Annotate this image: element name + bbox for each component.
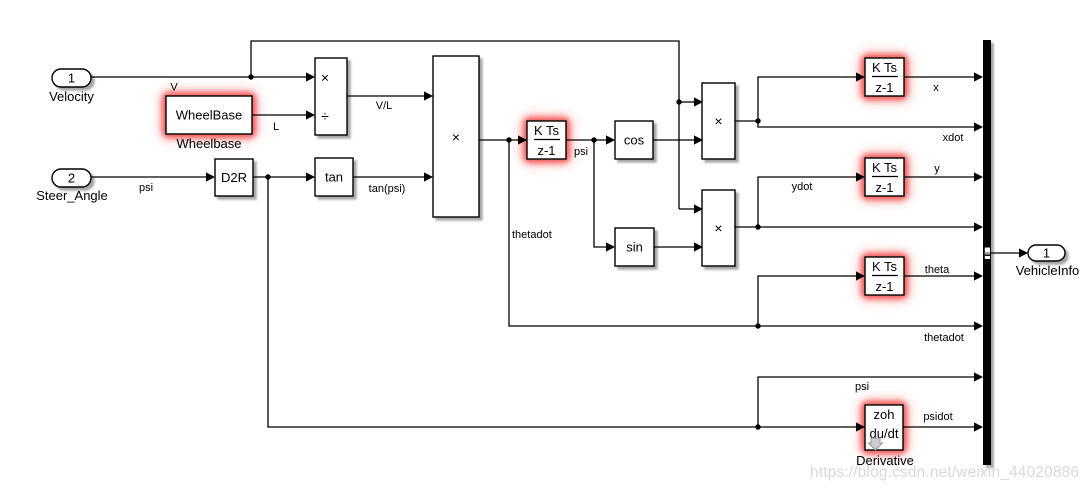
glow of Derivative	[860, 400, 908, 455]
product Product2	[702, 83, 735, 159]
glow of integrator U_x	[860, 53, 909, 101]
glow of integrator U_y	[860, 153, 909, 201]
integrator U_x K Ts/z-1	[865, 58, 904, 96]
svg-text:Steer_Angle: Steer_Angle	[36, 188, 108, 203]
svg-text:×: ×	[714, 220, 722, 236]
svg-text:y: y	[934, 163, 940, 175]
trig block cos	[615, 121, 653, 159]
wire tan to big Product	[353, 176, 424, 178]
svg-text:z-1: z-1	[875, 180, 893, 195]
wire ydot up to integrator U_y	[758, 177, 856, 227]
svg-text:ydot: ydot	[792, 181, 813, 193]
svg-text:1: 1	[68, 71, 75, 86]
product Product3	[702, 190, 735, 266]
node theta branch junction	[755, 323, 760, 328]
gain D2R	[215, 159, 253, 196]
node V feed junction	[676, 99, 681, 104]
svg-text:D2R: D2R	[221, 170, 247, 185]
wire thetadot down to Mux	[509, 140, 974, 326]
svg-text:xdot: xdot	[943, 132, 964, 144]
wire psi up to Mux	[758, 377, 974, 427]
svg-text:K Ts: K Ts	[872, 160, 898, 175]
svg-text:Wheelbase: Wheelbase	[176, 136, 241, 151]
node xdot junction	[755, 118, 760, 123]
mux output connector	[985, 248, 990, 260]
wire Steer_Angle to D2R	[91, 176, 206, 178]
integrator U_theta2 K Ts/z-1	[865, 257, 904, 295]
svg-text:psi: psi	[574, 146, 588, 158]
wire Product2 out	[735, 120, 758, 122]
node ydot junction	[755, 224, 760, 229]
wire Velocity to Product1	[91, 76, 306, 78]
svg-text:×: ×	[714, 113, 722, 129]
svg-text:sin: sin	[626, 240, 643, 255]
svg-text:z-1: z-1	[875, 80, 893, 95]
trig block tan	[315, 158, 353, 196]
svg-text:x: x	[933, 82, 939, 94]
wire integrator U_y to Mux	[903, 176, 974, 178]
svg-text:×: ×	[452, 129, 460, 145]
wire integrator U_theta to cos	[566, 139, 606, 141]
svg-text:zoh: zoh	[874, 407, 895, 422]
svg-text:÷: ÷	[321, 108, 329, 124]
svg-text:psi: psi	[139, 182, 153, 194]
wire xdot to Mux	[758, 121, 974, 127]
trig block sin	[615, 228, 654, 266]
svg-text:V: V	[170, 82, 178, 94]
node D2R out junction	[265, 174, 270, 179]
node V junction	[248, 74, 253, 79]
svg-text:K Ts: K Ts	[534, 123, 560, 138]
wire up to integrator U_theta2	[758, 276, 856, 326]
svg-text:WheelBase: WheelBase	[176, 108, 242, 123]
svg-text:V/L: V/L	[376, 100, 393, 112]
wire theta down to sin	[594, 140, 606, 247]
constant WheelBase	[166, 96, 252, 151]
svg-text:tan: tan	[325, 170, 343, 185]
wire xdot up to integrator U_x	[758, 77, 856, 121]
svg-text:z-1: z-1	[875, 279, 893, 294]
svg-text:×: ×	[321, 70, 329, 86]
svg-text:K Ts: K Ts	[872, 60, 898, 75]
wire integrator U_theta2 to Mux	[904, 275, 974, 277]
wire cos to Product2	[653, 139, 694, 141]
svg-text:cos: cos	[624, 133, 645, 148]
svg-text:tan(psi): tan(psi)	[369, 183, 406, 195]
wire big Product to integrator U_theta	[479, 139, 518, 141]
glow of integrator U_theta2	[860, 252, 909, 300]
svg-text:K Ts: K Ts	[872, 259, 898, 274]
svg-text:psidot: psidot	[923, 411, 952, 423]
wire V feedback up and across top	[251, 41, 679, 209]
wire D2R to tan	[253, 176, 306, 178]
wire V into Product3 input 1	[679, 208, 694, 210]
wire integrator U_x to Mux	[904, 76, 974, 78]
wire WheelBase to Product1 divide input	[252, 114, 306, 116]
svg-text:thetadot: thetadot	[512, 229, 552, 241]
wire V into Product2 input 1	[679, 101, 694, 103]
product Product1 multiply divide	[315, 58, 347, 135]
input port 2 Steer_Angle	[36, 169, 108, 203]
svg-text:VehicleInfo: VehicleInfo	[1016, 263, 1080, 278]
node thetadot junction	[506, 137, 511, 142]
node theta out junction	[591, 137, 596, 142]
glow of constant WheelBase	[161, 91, 257, 139]
integrator U_y K Ts/z-1	[865, 158, 904, 196]
wire ydot to Mux	[758, 226, 974, 228]
svg-text:psi: psi	[855, 381, 869, 393]
node psi bottom junction	[755, 424, 760, 429]
product big Product	[433, 56, 479, 217]
wire Derivative to Mux	[903, 426, 974, 428]
svg-text:thetadot: thetadot	[924, 332, 964, 344]
wire Product1 to big Product	[347, 95, 424, 97]
svg-text:L: L	[273, 121, 279, 133]
output port 1 VehicleInfo	[1016, 245, 1080, 278]
svg-text:z-1: z-1	[537, 143, 555, 158]
wire Mux to VehicleInfo	[991, 252, 1019, 254]
wire psi down to Derivative	[268, 177, 856, 427]
svg-text:https://blog.csdn.net/weixin_4: https://blog.csdn.net/weixin_44020886	[810, 464, 1079, 481]
derivative block zoh du/dt	[856, 405, 914, 468]
input port 1 Velocity	[49, 69, 94, 104]
integrator U_theta K Ts/z-1	[527, 121, 566, 159]
wire sin to Product3	[654, 246, 694, 248]
glow of integrator U_theta	[522, 116, 571, 164]
wire Product3 out	[735, 226, 758, 228]
svg-text:1: 1	[1043, 246, 1050, 261]
svg-text:theta: theta	[925, 264, 950, 276]
svg-text:2: 2	[68, 171, 75, 186]
svg-text:Velocity: Velocity	[49, 89, 94, 104]
mux bar	[983, 40, 991, 465]
